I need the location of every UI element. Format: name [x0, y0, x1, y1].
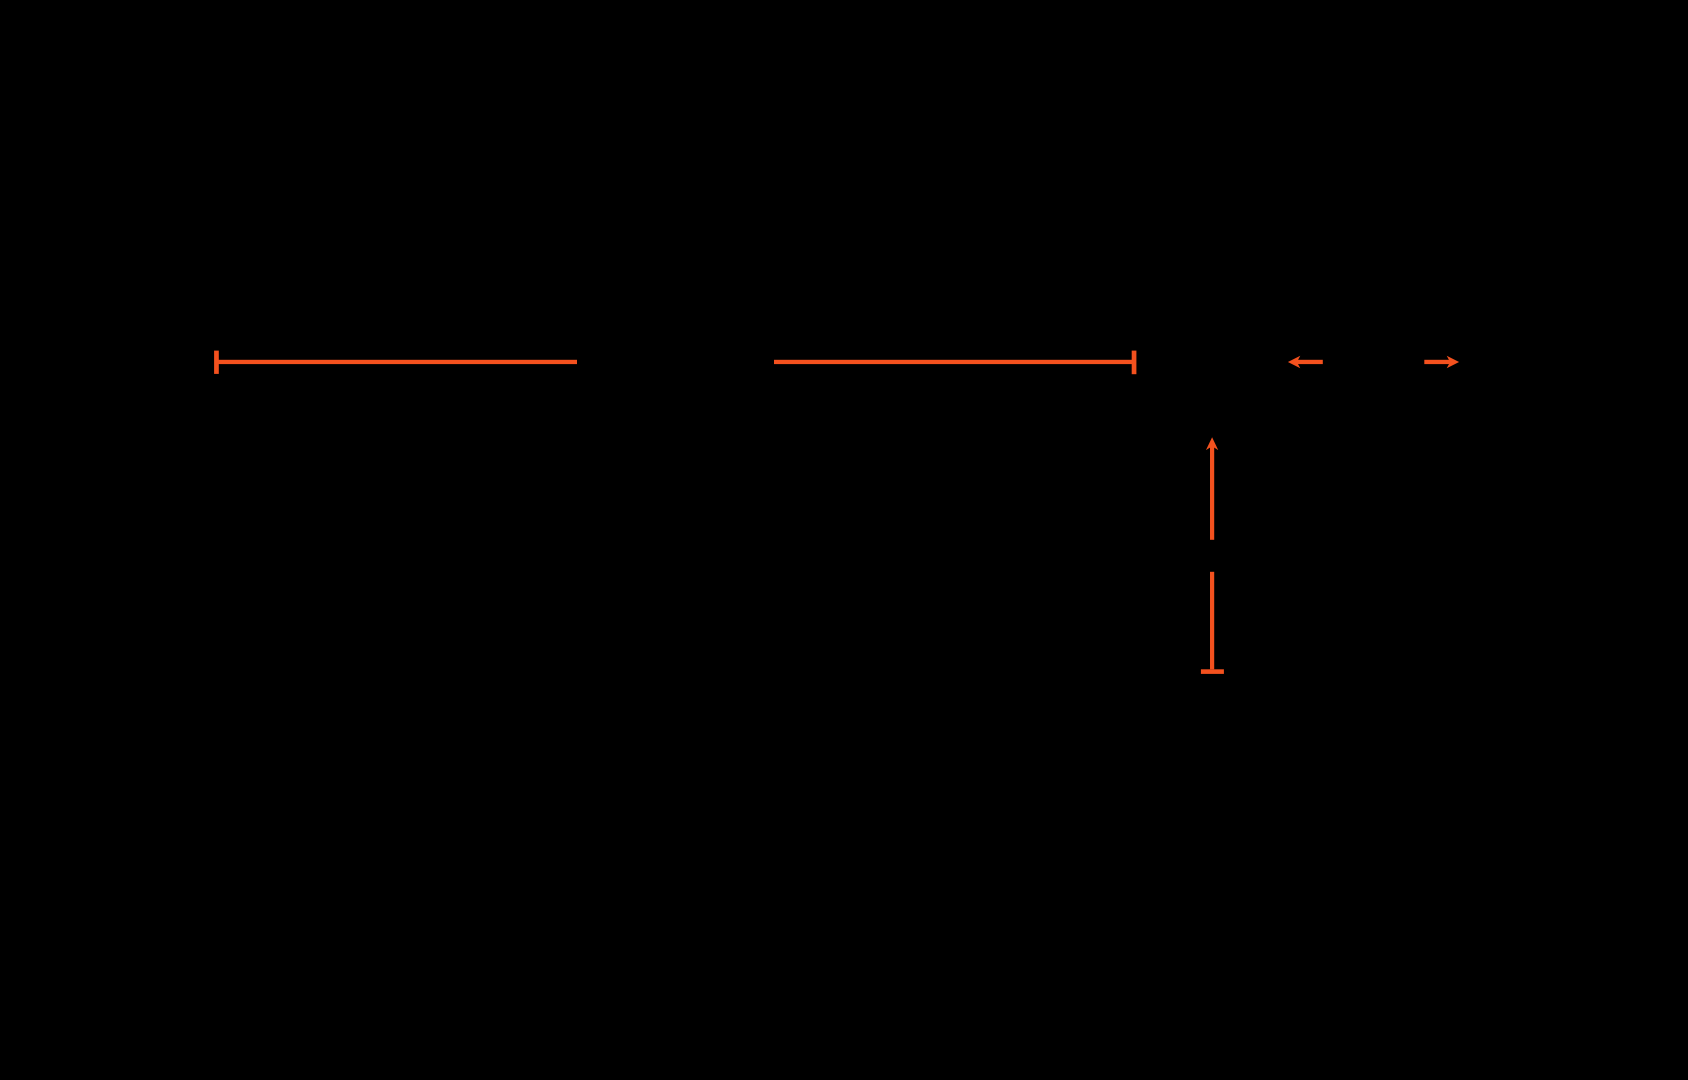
dimension D1 left line segment (wire) — [218, 360, 577, 364]
dimension D3 lower shaft segment (wire) — [1210, 572, 1214, 670]
dimension D2 left arrow shaft (wire) — [1297, 360, 1323, 364]
dimension D2 right arrow shaft (wire) — [1424, 360, 1450, 364]
dimension D1 right line segment (wire) — [774, 360, 1132, 364]
dimension D1 right end tick — [1132, 351, 1137, 375]
dimension D3 up arrowhead — [1206, 437, 1218, 450]
dimension D3 bottom end tick — [1201, 669, 1224, 674]
dimension D2 right arrowhead — [1447, 356, 1459, 369]
dimension D2 left arrowhead — [1288, 356, 1300, 369]
dimension D3 upper shaft segment (wire) — [1210, 446, 1214, 540]
dimension D1 left end tick — [214, 351, 219, 374]
